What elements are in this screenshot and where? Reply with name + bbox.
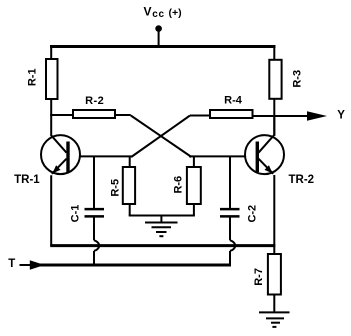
svg-text:(+): (+) [169,7,182,19]
svg-text:R-2: R-2 [85,95,104,107]
svg-text:TR-1: TR-1 [14,174,40,186]
svg-text:T: T [8,258,15,270]
svg-text:V: V [144,5,152,19]
svg-text:R-3: R-3 [291,70,303,88]
svg-text:cc: cc [152,9,164,20]
svg-text:R-7: R-7 [253,268,265,286]
svg-text:R-6: R-6 [173,176,185,194]
svg-text:C-1: C-1 [70,205,82,223]
svg-text:R-4: R-4 [224,95,243,107]
svg-text:C-2: C-2 [247,205,259,223]
svg-text:Y: Y [337,110,345,122]
svg-text:TR-2: TR-2 [289,174,315,186]
svg-text:R-5: R-5 [109,179,121,197]
svg-text:R-1: R-1 [26,68,38,86]
